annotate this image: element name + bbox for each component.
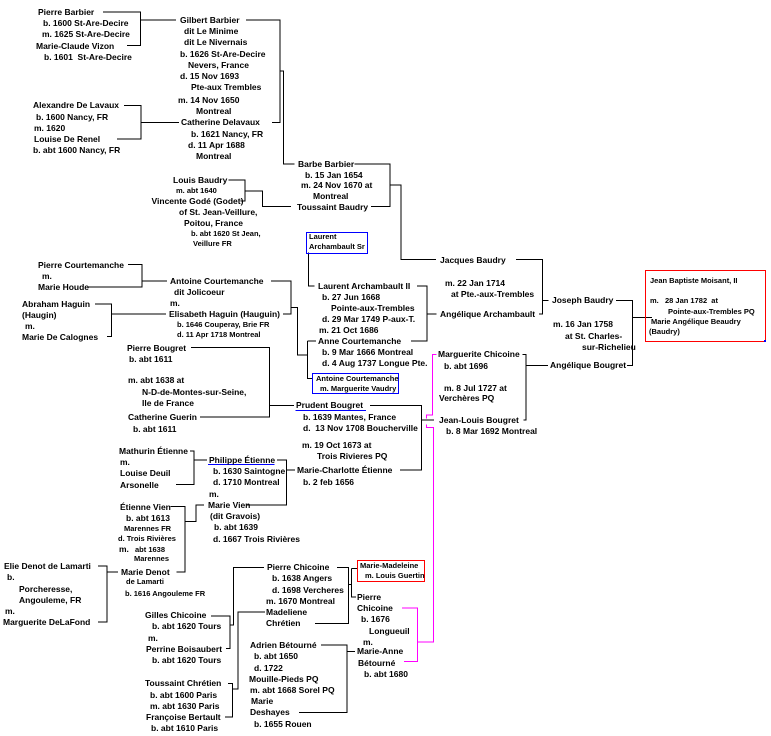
wire branch to Toussaint Baudry xyxy=(245,191,291,207)
note box Marie-Madeleine m. Louis Guertin xyxy=(357,560,426,582)
person Gilbert Barbier xyxy=(180,16,240,25)
wire Toussaint Chrétien-Françoise Bertault bracket xyxy=(225,684,233,718)
person Alexandre De Lavaux xyxy=(33,101,119,110)
wire branch to Angélique Archambault xyxy=(427,313,437,315)
wire branch to Marie Vien xyxy=(185,505,204,521)
wire branch to Marie Denot xyxy=(107,571,118,573)
wire magenta Marguerite Chicoine parent link upper xyxy=(427,354,437,418)
wire branch to Gilbert Barbier xyxy=(141,19,177,21)
person Marguerite Chicoine xyxy=(438,350,520,359)
person Louise De Renel xyxy=(34,135,100,144)
wire Antoine Courtemanche-Elisabeth Haguin bracket xyxy=(271,281,291,314)
wire Prudent Bougret-Marie-Charlotte Étienne bracket xyxy=(370,406,422,470)
person Jacques Baudry xyxy=(440,256,506,265)
person Angélique Archambault xyxy=(440,310,535,319)
wire branch to Prudent Bougret xyxy=(270,405,295,407)
person Laurent Archambault II xyxy=(318,282,410,291)
wire Laurent Archambault II-Anne Courtemanche bracket xyxy=(411,286,427,341)
wire branch to Angélique Bougret xyxy=(526,364,548,366)
person Philippe Étienne xyxy=(209,456,275,465)
person Pierre Chicoine b.1638 xyxy=(267,563,329,572)
wire Pierre Courtemanche-Marie Houde bracket xyxy=(88,265,142,287)
wire Louis Baudry-Vincente Godé bracket xyxy=(229,180,246,201)
person Toussaint Baudry xyxy=(297,203,368,212)
person Abraham Haguin xyxy=(22,300,90,309)
person Catherine Guerin xyxy=(128,413,197,422)
wire Marguerite Chicoine-Jean-Louis Bougret bracket xyxy=(523,354,527,420)
person Pierre Bougret xyxy=(127,344,186,353)
wire to children rail xyxy=(349,584,352,586)
wire Elie Denot-Marguerite DeLaFond bracket xyxy=(98,566,107,622)
person Louise Deuil Arsonelle xyxy=(120,469,171,478)
person Madeliene Chrétien xyxy=(266,608,307,617)
wire tick to Marie-Madeleine note xyxy=(352,567,358,569)
wire branch to Jean-Louis Bougret xyxy=(422,419,435,421)
person Marguerite DeLaFond xyxy=(3,618,90,627)
wire Mathurin Étienne-Louise Deuil bracket xyxy=(176,451,194,485)
person Louis Baudry xyxy=(173,176,227,185)
person Marie Deshayes xyxy=(251,697,273,706)
note Marie-Madeleine xyxy=(360,562,418,570)
wire Pierre Barbier-Marie-Claude Vizon bracket xyxy=(103,12,141,46)
wire Laurent Sr note to Laurent Archambault II xyxy=(309,253,315,286)
note Antoine Courtemanche xyxy=(316,375,399,383)
person Barbe Barbier xyxy=(298,160,354,169)
underline Philippe Étienne xyxy=(208,464,275,466)
person Pierre Chicoine b.1676 xyxy=(357,593,381,602)
person Perrine Boisaubert xyxy=(146,645,222,654)
wire Joseph Baudry-Angélique Bougret bracket xyxy=(616,300,633,365)
person Étienne Vien xyxy=(120,503,171,512)
underline Prudent Bougret xyxy=(296,409,367,411)
wire branch to Antoine Courtemanche xyxy=(142,280,167,282)
person Gilles Chicoine xyxy=(145,611,206,620)
wire branch to Elisabeth Haguin xyxy=(112,313,167,315)
person Angélique Bougret xyxy=(550,361,626,370)
wire branch to Madeliene Chrétien xyxy=(233,612,265,689)
person Toussaint Chrétien xyxy=(145,679,221,688)
person Pierre Courtemanche xyxy=(38,261,124,270)
wire branch to Barbe Barbier xyxy=(280,71,295,164)
person Anne Courtemanche xyxy=(318,337,401,346)
wire branch to Marie-Anne Bétourné xyxy=(347,650,355,652)
person Marie De Calognes xyxy=(22,333,98,342)
person Marie-Charlotte Étienne xyxy=(297,466,392,475)
note box Antoine Courtemanche m. Marguerite Vaudry xyxy=(312,373,400,394)
wire branch to Marie-Charlotte Étienne xyxy=(287,469,296,471)
wire branch to Philippe Étienne xyxy=(194,459,207,461)
person Marie Denot xyxy=(121,568,170,577)
wire branch to Joseph Baudry xyxy=(543,299,549,301)
wire Abraham Haguin-Marie De Calognes bracket xyxy=(95,304,112,337)
wire branch to Jacques Baudry xyxy=(390,185,436,260)
wire branch to Pierre Chicoine b.1638 xyxy=(230,567,264,625)
person Elisabeth Haguin xyxy=(169,310,280,319)
wire branch toward Anne Courtemanche xyxy=(291,308,308,356)
person Marie Vien xyxy=(208,501,250,510)
wire Pierre Bougret-Catherine Guerin bracket xyxy=(191,348,270,418)
note Jean Baptiste Moisant II xyxy=(650,277,738,285)
person Catherine Delavaux xyxy=(181,118,260,127)
person Pierre Barbier xyxy=(38,8,94,17)
wire Gilbert Barbier-Catherine Delavaux bracket xyxy=(246,20,280,122)
note Laurent Archambault Sr xyxy=(309,233,337,241)
wire branch to Marie Angélique Beaudry note xyxy=(633,316,653,318)
wire Barbe Barbier-Toussaint Baudry bracket xyxy=(355,164,391,207)
wire children rail xyxy=(352,568,357,597)
wire Alexandre De Lavaux-Louise De Renel bracket xyxy=(117,106,141,140)
person Marie-Anne Bétourné xyxy=(357,647,403,656)
wire magenta parent link lower xyxy=(417,424,433,642)
person Jean-Louis Bougret xyxy=(439,416,519,425)
person Elie Denot de Lamarti xyxy=(4,562,91,571)
person Joseph Baudry xyxy=(552,296,613,305)
person Françoise Bertault xyxy=(146,713,221,722)
note box Jean Baptiste Moisant II xyxy=(645,270,766,342)
note box Laurent Archambault Sr xyxy=(306,232,368,254)
wire Étienne Vien-Marie Denot bracket xyxy=(171,507,186,572)
person Prudent Bougret xyxy=(296,401,363,410)
wire Jacques Baudry-Angélique Archambault bracket xyxy=(516,260,543,314)
person Antoine Courtemanche xyxy=(170,277,264,286)
person Mathurin Étienne xyxy=(119,447,188,456)
person Adrien Bétourné xyxy=(250,641,317,650)
person Vincente Godé xyxy=(152,197,244,206)
person Marie Houde xyxy=(38,283,89,292)
wire Anne Courtemanche to Antoine note vertical xyxy=(308,341,313,379)
wire magenta Pierre Chicoine-Marie-Anne Bétourné bracket xyxy=(402,608,417,661)
person Marie-Claude Vizon xyxy=(36,42,114,51)
person Étienne Vien marriage xyxy=(119,545,129,554)
wire tick to Anne Courtemanche xyxy=(308,340,317,342)
wire Pierre Chicoine-Madeliene Chrétien bracket xyxy=(315,567,349,623)
wire Philippe Étienne-Marie Vien bracket xyxy=(246,460,287,505)
wire branch to Catherine Delavaux xyxy=(141,122,179,124)
wire Adrien Bétourné-Marie Deshayes bracket xyxy=(299,645,347,712)
wire Gilles Chicoine-Perrine Boisaubert bracket xyxy=(211,616,230,648)
